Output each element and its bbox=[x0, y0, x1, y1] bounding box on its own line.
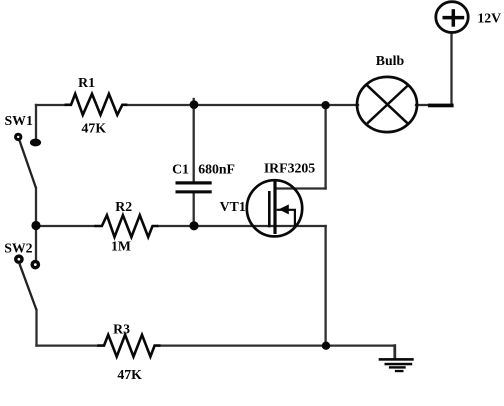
lamp bulb circle bbox=[357, 77, 417, 132]
wire bulb right lead thick segment bbox=[428, 104, 454, 108]
svg-text:47K: 47K bbox=[82, 121, 107, 136]
svg-text:12V: 12V bbox=[477, 10, 501, 25]
transistor Q1 body circle (IRF3205) bbox=[247, 180, 302, 236]
power source plus sign bbox=[443, 9, 465, 27]
wire ground drop vertical bbox=[393, 346, 396, 359]
svg-text:R1: R1 bbox=[78, 75, 95, 90]
resistor R1 bbox=[65, 94, 128, 115]
switch SW1 fixed contact dot bbox=[30, 139, 41, 147]
switch SW2 left contact ring bbox=[16, 256, 22, 262]
resistor R3 bbox=[97, 335, 160, 357]
wire top rail middle segment bbox=[127, 104, 358, 106]
wire SW2 lever lower vertical to bottom rail bbox=[35, 310, 37, 346]
wire capacitor top lead bbox=[193, 99, 195, 182]
switch SW2 right contact ring bbox=[32, 262, 38, 268]
svg-text:R3: R3 bbox=[113, 322, 130, 337]
svg-text:R2: R2 bbox=[115, 199, 132, 214]
node junction dot source / bottom rail bbox=[322, 342, 330, 350]
ground symbol bbox=[379, 358, 414, 372]
lamp bulb X diagonal 2 bbox=[367, 86, 408, 124]
wire SW1 lever lower vertical to junction bbox=[35, 188, 37, 226]
lamp bulb X diagonal 1 bbox=[366, 85, 408, 125]
node junction dot at SW1/SW2/R2 bbox=[31, 221, 40, 230]
svg-text:47K: 47K bbox=[117, 367, 142, 382]
wire gate rail from SW junction to R2 bbox=[36, 225, 95, 227]
switch SW1 lever bbox=[20, 141, 37, 189]
svg-text:Bulb: Bulb bbox=[376, 53, 405, 68]
resistor R2 bbox=[94, 215, 158, 237]
wire bottom rail left segment bbox=[37, 344, 98, 346]
node junction dot capacitor top bbox=[190, 100, 199, 109]
svg-text:1M: 1M bbox=[111, 239, 131, 254]
transistor gate bar bbox=[268, 191, 271, 227]
node junction dot drain / bulb bbox=[321, 101, 329, 109]
svg-text:VT1: VT1 bbox=[220, 199, 246, 214]
capacitor C1 top plate bbox=[176, 181, 212, 184]
node junction dot capacitor bottom / gate rail bbox=[189, 221, 198, 230]
wire drain vertical from top rail junction to MOSFET bbox=[324, 105, 326, 189]
switch SW1 pivot ring bbox=[16, 134, 21, 139]
transistor source arrow bbox=[277, 204, 295, 225]
transistor channel bar bbox=[273, 181, 276, 234]
wire capacitor bottom lead bbox=[193, 193, 195, 226]
wire SW2 upper vertical from junction to contact ring bbox=[35, 226, 37, 259]
svg-text:C1: C1 bbox=[172, 162, 189, 177]
svg-text:IRF3205: IRF3205 bbox=[264, 160, 315, 175]
switch SW2 lever bbox=[20, 264, 37, 310]
power source V1 circle bbox=[436, 2, 468, 33]
wire source vertical from MOSFET to bottom junction bbox=[324, 226, 326, 346]
wire bulb right lead thin part bbox=[416, 104, 429, 106]
wire left vertical from top rail to SW1 contact bbox=[35, 105, 37, 139]
wire 12V supply vertical lead bbox=[450, 33, 452, 105]
wire drain horizontal from channel bar to drain vertical bbox=[276, 187, 326, 189]
wire bottom rail right segment to ground bbox=[161, 344, 395, 346]
svg-text:SW1: SW1 bbox=[5, 113, 33, 128]
wire top rail left segment bbox=[36, 104, 65, 106]
svg-text:SW2: SW2 bbox=[4, 240, 32, 255]
svg-text:680nF: 680nF bbox=[198, 162, 235, 177]
wire gate/source rail from R2 to source vertical bbox=[158, 225, 325, 227]
capacitor C1 bottom plate bbox=[176, 190, 212, 193]
